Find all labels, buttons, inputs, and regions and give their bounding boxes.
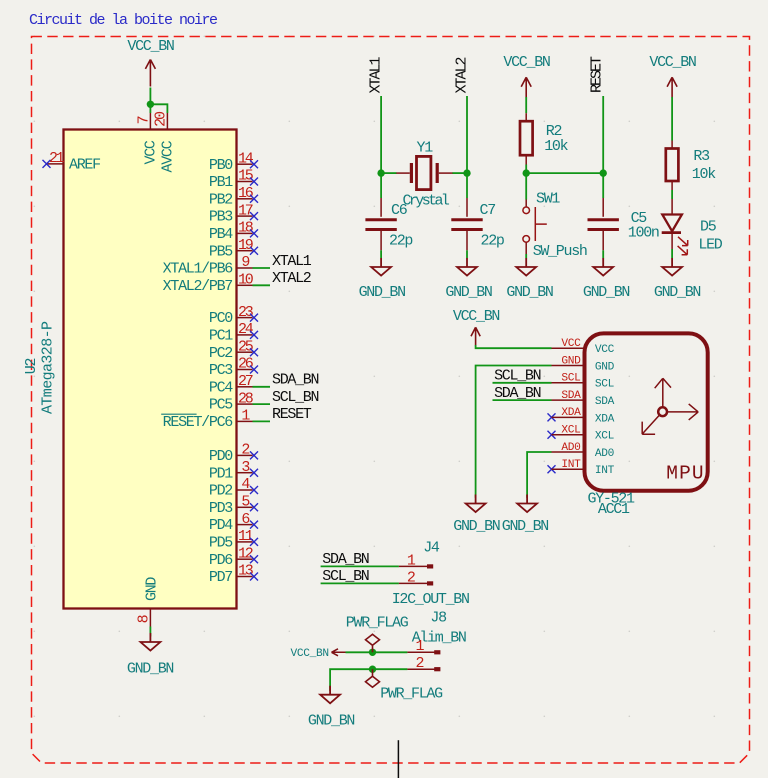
- ground under AD0: [517, 495, 537, 513]
- svg-text:PD5: PD5: [209, 535, 233, 552]
- svg-text:SDA: SDA: [561, 390, 581, 402]
- svg-text:MPU: MPU: [666, 463, 704, 485]
- MPU pin GND: [552, 365, 585, 367]
- U2 pin 15 PB1: [237, 181, 253, 183]
- svg-text:PB5: PB5: [209, 243, 233, 260]
- ground under C7: [457, 258, 477, 276]
- wire crystal right: [452, 172, 467, 174]
- C5 bottom lead: [602, 230, 604, 250]
- MPU pin XDA: [552, 416, 585, 418]
- svg-text:7: 7: [136, 116, 153, 124]
- U2 pin 23 PC0: [237, 317, 253, 319]
- svg-text:SW_Push: SW_Push: [533, 243, 587, 260]
- capacitor C6: [365, 218, 396, 221]
- wire MPU GND net: [476, 366, 552, 498]
- svg-text:PB0: PB0: [209, 157, 233, 174]
- MPU pin INT: [552, 468, 585, 470]
- ground under C6: [371, 258, 391, 276]
- power port VCC_BN arrow: [145, 60, 155, 87]
- wire VCC to R3: [671, 97, 673, 141]
- wire J8 pin2 net: [330, 669, 407, 691]
- wire into C7: [466, 173, 468, 198]
- svg-text:C6: C6: [391, 202, 408, 219]
- wire VCC to R2: [525, 97, 527, 113]
- junction D: [600, 169, 607, 176]
- power port VCC_BN above R3 arrow: [667, 77, 677, 97]
- wire pin8 to ground: [149, 627, 151, 637]
- C7 bottom lead: [466, 230, 468, 250]
- svg-text:R3: R3: [693, 148, 710, 165]
- wire C6 to ground: [380, 250, 382, 258]
- svg-text:23: 23: [238, 304, 254, 321]
- svg-text:XCL: XCL: [561, 425, 581, 437]
- svg-text:19: 19: [238, 237, 253, 254]
- U2 pin 19 PB5: [237, 250, 253, 252]
- capacitor C7: [451, 218, 482, 221]
- svg-text:28: 28: [238, 390, 254, 407]
- svg-text:GND_BN: GND_BN: [445, 284, 492, 301]
- ground under SW1: [516, 258, 536, 276]
- svg-text:I2C_OUT_BN: I2C_OUT_BN: [392, 591, 469, 608]
- svg-text:J4: J4: [423, 539, 440, 556]
- wire AD0 to ground: [527, 452, 551, 498]
- junction E: [369, 649, 376, 656]
- svg-text:18: 18: [238, 220, 254, 237]
- svg-text:Y1: Y1: [417, 139, 434, 156]
- U2 pin 7 stub: [149, 113, 151, 130]
- sheet fold mark: [397, 740, 399, 778]
- flag PWR_FLAG lower: [366, 669, 380, 687]
- svg-text:C7: C7: [480, 202, 496, 219]
- U2 pin 28 PC5 with label SCL_BN: [237, 403, 253, 405]
- svg-text:ACC1: ACC1: [598, 501, 630, 518]
- svg-text:16: 16: [238, 185, 254, 202]
- svg-text:VCC_BN: VCC_BN: [127, 38, 174, 55]
- svg-text:9: 9: [241, 254, 249, 271]
- svg-text:VCC_BN: VCC_BN: [291, 648, 329, 660]
- svg-text:PB2: PB2: [209, 191, 232, 208]
- J8 pin 2: [407, 668, 437, 670]
- U2 pin 17 PB3: [237, 215, 253, 217]
- svg-text:VCC: VCC: [595, 344, 615, 356]
- svg-text:XTAL2: XTAL2: [272, 270, 311, 287]
- U2 pin 1 RESET/PC6 with label RESET: [237, 420, 253, 422]
- svg-text:GND: GND: [561, 355, 581, 367]
- U2 pin 18 PB4: [237, 232, 253, 234]
- U2 pin 26 PC3: [237, 369, 253, 371]
- svg-text:XTAL1: XTAL1: [368, 56, 385, 93]
- svg-text:VCC: VCC: [143, 140, 160, 164]
- wire SDA to J4: [321, 565, 399, 567]
- svg-text:PB4: PB4: [209, 226, 233, 243]
- U2 pin 5 PD3: [237, 506, 253, 508]
- wire into C6: [380, 173, 382, 198]
- C5 top lead: [602, 198, 604, 217]
- svg-text:XTAL1/PB6: XTAL1/PB6: [163, 261, 234, 278]
- wire VCC to MPU: [476, 345, 552, 348]
- svg-text:GND_BN: GND_BN: [359, 284, 406, 301]
- svg-text:RESET: RESET: [589, 56, 606, 93]
- U2 pin 27 PC4 with label SDA_BN: [237, 386, 253, 388]
- svg-text:15: 15: [238, 168, 254, 185]
- wire R3 to D5: [671, 190, 673, 199]
- svg-text:AREF: AREF: [69, 157, 100, 174]
- junction F: [369, 666, 376, 673]
- svg-text:ATmega328-P: ATmega328-P: [40, 321, 57, 414]
- svg-text:XDA: XDA: [561, 407, 581, 419]
- J8 pin 1: [407, 651, 437, 653]
- svg-text:SCL: SCL: [595, 379, 615, 391]
- svg-text:GND_BN: GND_BN: [502, 518, 549, 535]
- MPU pin SCL: [552, 382, 585, 384]
- svg-text:XDA: XDA: [595, 413, 615, 425]
- wire D5 to ground: [671, 249, 673, 258]
- svg-text:PWR_FLAG: PWR_FLAG: [380, 686, 443, 703]
- svg-text:PWR_FLAG: PWR_FLAG: [346, 615, 409, 632]
- svg-text:AD0: AD0: [595, 448, 615, 460]
- junction B: [463, 169, 470, 176]
- svg-text:PC2: PC2: [209, 345, 232, 362]
- U2 pin 11 PD5: [237, 541, 253, 543]
- C6 bottom lead: [380, 230, 382, 250]
- svg-text:25: 25: [238, 338, 254, 355]
- IC U2 body: [64, 130, 237, 609]
- svg-text:20: 20: [153, 111, 170, 127]
- ACC1 axes icon: [642, 378, 698, 434]
- U2 pin 24 PC1: [237, 334, 253, 336]
- svg-text:PD0: PD0: [209, 448, 233, 465]
- junction: [147, 101, 154, 108]
- svg-text:PD4: PD4: [209, 517, 233, 534]
- svg-text:AD0: AD0: [561, 442, 581, 454]
- power port VCC_BN near MPU arrow: [471, 327, 480, 345]
- svg-text:10k: 10k: [544, 138, 568, 155]
- C6 top lead: [380, 198, 382, 217]
- svg-text:VCC: VCC: [561, 338, 581, 350]
- svg-text:27: 27: [238, 373, 253, 390]
- resistor R3: [666, 149, 679, 182]
- no-connect XDA: [548, 413, 556, 421]
- svg-text:VCC_BN: VCC_BN: [649, 54, 696, 71]
- J4 pin 2: [399, 582, 430, 584]
- R3 top lead: [671, 141, 673, 149]
- wire SDA to MPU: [493, 399, 552, 401]
- U2 pin 13 PD7: [237, 576, 253, 578]
- wire RESET net: [602, 96, 604, 173]
- no-connect INT: [548, 465, 556, 473]
- wire junction to SW1: [525, 173, 527, 199]
- no-connect pin 21: [43, 160, 51, 168]
- svg-text:PC5: PC5: [209, 397, 233, 414]
- U2 pin 12 PD6: [237, 558, 253, 560]
- power port VCC_BN above R2 arrow: [521, 77, 531, 97]
- ground symbol under U2: [141, 633, 161, 651]
- wire SW1 to ground: [525, 254, 527, 258]
- svg-text:PD7: PD7: [209, 569, 232, 586]
- capacitor C5: [588, 218, 619, 221]
- LED D5: [662, 215, 682, 232]
- wire SCL to J4: [321, 582, 399, 584]
- wire C5 to ground: [602, 250, 604, 258]
- svg-text:PC3: PC3: [209, 362, 233, 379]
- svg-text:22p: 22p: [481, 233, 504, 250]
- svg-text:PD2: PD2: [209, 483, 232, 500]
- svg-text:RESET/PC6: RESET/PC6: [163, 414, 234, 431]
- svg-text:11: 11: [238, 528, 254, 545]
- svg-text:GND_BN: GND_BN: [654, 284, 701, 301]
- ground under C5: [593, 258, 613, 276]
- wire crystal left: [381, 172, 396, 174]
- svg-text:PD1: PD1: [209, 465, 233, 482]
- crystal Y1: [396, 172, 410, 174]
- no-connect XCL: [548, 431, 556, 439]
- svg-text:12: 12: [238, 545, 253, 562]
- C7 top lead: [466, 198, 468, 217]
- wire XTAL1 net: [380, 96, 382, 173]
- svg-text:PB1: PB1: [209, 174, 233, 191]
- ground under D5: [662, 258, 682, 276]
- svg-text:U2: U2: [23, 359, 40, 375]
- svg-text:XTAL2: XTAL2: [454, 57, 471, 93]
- svg-text:SDA: SDA: [595, 396, 615, 408]
- svg-text:PC1: PC1: [209, 328, 233, 345]
- svg-text:RESET: RESET: [272, 406, 312, 423]
- U2 pin 8 stub: [149, 609, 151, 627]
- MPU pin AD0: [552, 451, 585, 453]
- svg-text:VCC_BN: VCC_BN: [453, 308, 500, 325]
- wire junction to C5: [602, 173, 604, 198]
- wire RC net: [526, 172, 603, 174]
- flag PWR_FLAG upper: [366, 634, 380, 652]
- resistor R2: [520, 121, 533, 155]
- MPU pin SDA: [552, 399, 585, 401]
- wire SCL to MPU: [493, 382, 552, 384]
- U2 pin 20 stub: [166, 113, 168, 130]
- svg-text:J8: J8: [430, 610, 447, 627]
- R2 bottom lead: [525, 155, 527, 164]
- svg-text:26: 26: [238, 356, 254, 373]
- junction C: [523, 169, 530, 176]
- svg-text:Crystal: Crystal: [403, 193, 450, 210]
- wire XTAL2 net: [466, 96, 468, 173]
- U2 pin 25 PC2: [237, 351, 253, 353]
- svg-text:LED: LED: [698, 236, 722, 253]
- U2 pin 10 XTAL2/PB7 with label XTAL2: [237, 284, 253, 286]
- U2 pin 21 AREF stub: [47, 163, 64, 165]
- svg-text:14: 14: [238, 150, 254, 167]
- ground under J8: [320, 686, 340, 704]
- svg-text:INT: INT: [595, 465, 615, 477]
- svg-text:PD3: PD3: [209, 500, 233, 517]
- svg-text:SCL: SCL: [561, 373, 581, 385]
- svg-text:SDA_BN: SDA_BN: [272, 372, 319, 389]
- svg-text:PC4: PC4: [209, 379, 233, 396]
- svg-text:2: 2: [407, 569, 415, 586]
- svg-text:SCL_BN: SCL_BN: [272, 389, 319, 406]
- svg-text:100n: 100n: [628, 225, 659, 242]
- accelerometer module ACC1 body: [585, 333, 708, 490]
- R2 top lead: [525, 113, 527, 121]
- svg-text:2: 2: [415, 655, 423, 672]
- power port VCC_BN left arrow: [332, 649, 346, 656]
- junction A: [377, 169, 384, 176]
- U2 pin 3 PD1: [237, 472, 253, 474]
- svg-text:PD6: PD6: [209, 552, 233, 569]
- wire C7 to ground: [466, 250, 468, 258]
- svg-text:GND_BN: GND_BN: [506, 284, 553, 301]
- D5 bottom lead: [671, 232, 673, 249]
- svg-text:13: 13: [238, 563, 254, 580]
- svg-text:22p: 22p: [389, 233, 412, 250]
- svg-text:D5: D5: [700, 218, 717, 235]
- wire VCC to pins: [150, 88, 167, 114]
- svg-text:VCC_BN: VCC_BN: [503, 54, 550, 71]
- svg-text:XTAL2/PB7: XTAL2/PB7: [163, 278, 233, 295]
- svg-text:PB3: PB3: [209, 209, 233, 226]
- svg-text:INT: INT: [561, 459, 581, 471]
- svg-text:17: 17: [238, 202, 253, 219]
- R3 bottom lead: [671, 182, 673, 191]
- svg-text:XCL: XCL: [595, 431, 615, 443]
- U2 pin 16 PB2: [237, 198, 253, 200]
- MPU pin XCL: [552, 434, 585, 436]
- U2 pin 9 XTAL1/PB6 with label XTAL1: [237, 267, 253, 269]
- svg-text:XTAL1: XTAL1: [272, 253, 312, 270]
- svg-text:PC0: PC0: [209, 310, 233, 327]
- U2 pin 4 PD2: [237, 489, 253, 491]
- svg-text:2: 2: [241, 442, 249, 459]
- J4 pin 1: [399, 565, 430, 567]
- svg-text:GND: GND: [144, 577, 161, 601]
- svg-text:SW1: SW1: [536, 190, 560, 207]
- svg-text:Circuit de la boite noire: Circuit de la boite noire: [29, 12, 218, 29]
- ground under MPU GND: [466, 495, 486, 513]
- svg-text:GND: GND: [595, 361, 615, 373]
- svg-text:10k: 10k: [692, 166, 716, 183]
- U2 pin 14 PB0: [237, 163, 253, 165]
- switch SW1: [525, 200, 527, 207]
- svg-text:GND_BN: GND_BN: [127, 661, 174, 678]
- U2 pin 2 PD0: [237, 454, 253, 456]
- svg-text:GND_BN: GND_BN: [308, 713, 355, 730]
- wire R2 to junction: [525, 165, 527, 174]
- svg-text:10: 10: [238, 272, 254, 289]
- svg-text:21: 21: [49, 150, 65, 167]
- MPU pin VCC: [552, 347, 585, 349]
- svg-text:AVCC: AVCC: [160, 140, 177, 172]
- wire VCC to J8 pin1: [346, 651, 408, 653]
- D5 top lead: [671, 199, 673, 215]
- svg-text:24: 24: [238, 321, 254, 338]
- svg-text:GND_BN: GND_BN: [583, 284, 630, 301]
- U2 pin 6 PD4: [237, 524, 253, 526]
- svg-text:GND_BN: GND_BN: [453, 518, 500, 535]
